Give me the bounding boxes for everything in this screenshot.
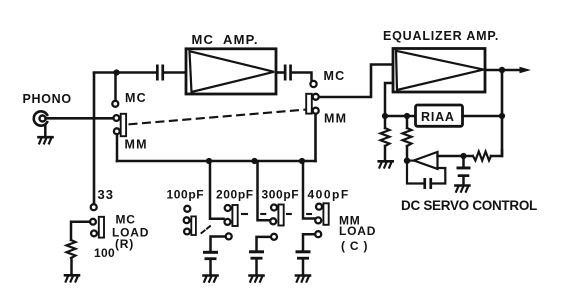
dashed mechanical link S1 to S2 xyxy=(130,110,306,125)
wire RIAA to output vertical xyxy=(463,115,503,118)
switch S2 contact MC xyxy=(310,81,316,87)
svg-text:DC SERVO CONTROL: DC SERVO CONTROL xyxy=(401,198,537,213)
svg-text:33: 33 xyxy=(98,187,114,202)
node J6 xyxy=(382,113,388,119)
ground at C8 xyxy=(250,276,264,282)
svg-text:400pF: 400pF xyxy=(308,188,350,202)
switch S5 slider bar xyxy=(232,205,237,226)
resistor 100 xyxy=(67,240,76,258)
switch S6 slider bar xyxy=(278,205,283,226)
switch S1 contact MM xyxy=(114,128,120,134)
wire resistor to ground xyxy=(70,258,73,275)
wire bus to S5 (200pF) xyxy=(210,161,224,219)
resistor R2 (feedback shunt) xyxy=(384,119,387,128)
wire servo output xyxy=(438,155,464,158)
wire J9 to servo amp xyxy=(407,160,414,162)
wire RIAA row left xyxy=(385,115,416,118)
switch S2 contact MM xyxy=(313,108,319,114)
switch S1 slider bar xyxy=(121,114,126,136)
op-amp U2 triangle xyxy=(396,51,484,90)
svg-text:MC: MC xyxy=(324,69,346,83)
svg-text:PHONO: PHONO xyxy=(23,92,72,106)
capacitor C6 (servo output filter) xyxy=(462,159,465,167)
node J4 xyxy=(299,158,305,164)
switch S7 lower contact xyxy=(315,217,321,223)
op-amp U1 MC amp box xyxy=(186,49,276,94)
output arrowhead xyxy=(520,67,532,74)
node J9 (servo amp input) xyxy=(404,158,410,164)
wire MC amp output to C2 xyxy=(276,71,284,74)
ground at R2 xyxy=(379,161,393,167)
wire bus up to switch S2 MM contact xyxy=(314,114,317,161)
node J2 xyxy=(206,158,212,164)
svg-text:MC AMP.: MC AMP. xyxy=(192,32,259,47)
svg-text:LOAD: LOAD xyxy=(339,224,376,238)
wire PHONO ground stub xyxy=(44,125,47,137)
node J7 xyxy=(404,113,410,119)
svg-text:200pF: 200pF xyxy=(216,188,254,202)
svg-text:100pF: 100pF xyxy=(167,188,205,202)
ground at C6 xyxy=(455,186,469,192)
wire S5 cap contact to capacitor xyxy=(211,237,226,251)
switch S2 pole contact xyxy=(313,94,319,100)
switch S5 cap contact xyxy=(226,233,232,239)
wire C1 to MC amp xyxy=(165,71,187,74)
svg-text:300pF: 300pF xyxy=(262,188,300,202)
wire S3 pole to resistor xyxy=(71,222,90,240)
svg-text:( C ): ( C ) xyxy=(341,239,368,253)
switch S5 top contact xyxy=(225,205,231,211)
op-amp U1 triangle xyxy=(190,51,275,92)
switch S3 contact 33 xyxy=(91,204,97,210)
switch S4 slider bar xyxy=(191,216,196,235)
wire left vertical (input bus down to 33 ohm contact) xyxy=(93,73,96,203)
node J3 xyxy=(251,158,257,164)
ground at PHONO xyxy=(39,137,53,143)
svg-text:(R): (R) xyxy=(115,237,134,251)
wire bus to S6 (300pF) xyxy=(258,161,270,220)
capacitor C1 (MC amp input coupling) xyxy=(156,65,164,81)
dashed link S6-S7 xyxy=(287,213,291,215)
wire C2 to switch S2 MC contact xyxy=(292,73,312,81)
wire S7 cap contact to capacitor xyxy=(303,234,315,250)
switch S2 slider bar xyxy=(306,94,312,114)
svg-text:EQUALIZER AMP.: EQUALIZER AMP. xyxy=(383,29,499,43)
switch S3 pole contact xyxy=(90,219,96,225)
wire PHONO to switch S1 pole xyxy=(46,117,113,120)
switch S6 lower contact xyxy=(270,218,276,224)
switch S4 (100pF) top contact xyxy=(184,206,190,212)
svg-text:RIAA: RIAA xyxy=(421,110,455,124)
wire top horizontal to MC amp input xyxy=(94,71,156,74)
node J1 xyxy=(113,69,119,75)
wire S2 pole to equalizer input xyxy=(319,65,393,98)
wire servo integrator loop xyxy=(407,163,445,184)
resistor R3 (servo injection) xyxy=(406,119,409,128)
wire MM capacitor bus xyxy=(117,160,316,163)
wire S6 cap contact to capacitor xyxy=(257,237,271,250)
wire output feedback vertical xyxy=(501,70,504,156)
switch S3 lower contact xyxy=(91,231,97,237)
wire equalizer output xyxy=(485,69,521,72)
switch S7 cap contact xyxy=(315,231,321,237)
resistor R4 (servo to output) xyxy=(464,155,473,158)
connector J-PHONO (RCA jack) xyxy=(34,111,47,125)
switch S6 top contact xyxy=(271,205,277,211)
switch S1 pole contact xyxy=(114,115,120,121)
switch S7 slider bar xyxy=(323,203,328,225)
capacitor C7 (200pF) xyxy=(203,251,218,260)
wire S1 MM contact down to bus xyxy=(116,135,119,161)
node J5 (output) xyxy=(499,67,505,73)
svg-text:100: 100 xyxy=(94,246,115,260)
switch S4 bottom contact xyxy=(184,229,190,235)
svg-text:MM: MM xyxy=(125,138,148,152)
switch S1 contact MC xyxy=(112,101,118,107)
switch S5 lower contact xyxy=(225,219,231,225)
capacitor C5 (servo integrator) xyxy=(423,178,432,189)
network RIAA box xyxy=(416,105,463,126)
node J8 xyxy=(499,113,505,119)
switch S7 top contact xyxy=(316,204,322,210)
capacitor C9 (400pF) xyxy=(296,250,311,259)
switch S4 mid contact xyxy=(184,217,190,223)
dashed link S4 diagonal xyxy=(202,226,211,233)
ground at MC load resistor xyxy=(65,275,79,281)
capacitor C8 (300pF) xyxy=(249,250,264,259)
svg-text:MM: MM xyxy=(324,112,347,126)
ground at C9 xyxy=(296,276,310,282)
svg-text:MC: MC xyxy=(125,91,147,105)
op-amp U3 DC servo (points left) xyxy=(414,152,438,169)
wire stub J1 to MC contact xyxy=(114,75,117,100)
svg-text:MC: MC xyxy=(116,213,136,227)
switch S6 cap contact xyxy=(271,234,277,240)
op-amp U2 equalizer amp box xyxy=(393,49,485,93)
dashed link S5-S6 xyxy=(242,213,247,215)
node J10 xyxy=(460,153,466,159)
ground at C7 xyxy=(204,276,218,282)
switch S3 slider bar xyxy=(99,217,104,238)
wire feedback input notch xyxy=(385,83,393,113)
wire bus to S7 (400pF) xyxy=(303,164,314,219)
capacitor C2 (MC amp output coupling) xyxy=(284,65,292,81)
